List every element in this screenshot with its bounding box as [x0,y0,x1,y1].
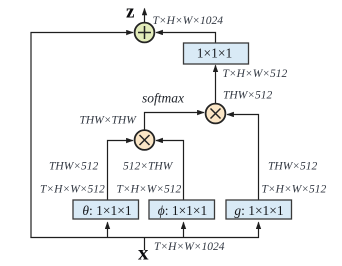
svg-text:THW×512: THW×512 [223,90,273,102]
svg-text:T×H×W×1024: T×H×W×1024 [153,15,224,27]
conv box g [226,200,292,219]
wire conv1 output to add [156,33,215,44]
svg-text:x: x [138,241,149,265]
plus sign [138,26,151,39]
wire g to matmul2 [227,115,258,201]
wire x to bus [144,238,146,251]
wire phi to matmul1 [156,141,183,201]
wire matmul2 to conv box [215,65,217,103]
wire bus to phi [183,222,185,237]
conv box theta [73,200,139,219]
wire bottom bus to g [30,222,258,237]
svg-text:1×1×1: 1×1×1 [197,46,232,61]
svg-text:g: 1×1×1: g: 1×1×1 [234,203,283,218]
wire bus to theta [107,222,109,237]
times sign [211,109,221,119]
svg-text:THW×512: THW×512 [49,161,99,173]
svg-text:T×H×W×1024: T×H×W×1024 [154,241,225,253]
conv box 1×1×1 [184,43,249,64]
svg-text:THW×THW: THW×THW [80,115,138,127]
svg-text:512×THW: 512×THW [123,161,174,173]
svg-text:ϕ: 1×1×1: ϕ: 1×1×1 [158,203,208,218]
times sign [140,135,150,145]
svg-text:T×H×W×512: T×H×W×512 [117,184,182,196]
svg-text:softmax: softmax [142,91,184,106]
svg-text:T×H×W×512: T×H×W×512 [40,184,105,196]
wire softmax path matmul1 to matmul2 [145,113,204,130]
wire theta to matmul1 [108,141,133,201]
svg-text:T×H×W×512: T×H×W×512 [223,68,288,80]
svg-text:THW×512: THW×512 [268,161,318,173]
node matmul1 circle [135,130,155,150]
node add circle [135,23,155,43]
wire skip connection x to add [31,33,133,238]
svg-text:T×H×W×512: T×H×W×512 [262,184,327,196]
node matmul2 circle [206,104,226,124]
svg-text:θ: 1×1×1: θ: 1×1×1 [82,203,131,218]
wire z output arrow [144,9,146,23]
conv box phi [149,200,215,219]
svg-text:z: z [126,2,135,23]
